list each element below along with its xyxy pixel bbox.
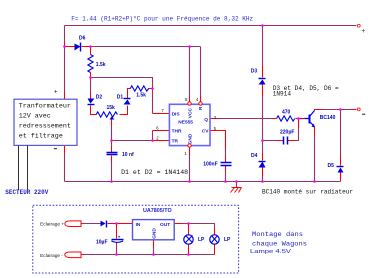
svg-text:VCC: VCC (187, 108, 193, 119)
svg-text:GND: GND (152, 228, 158, 239)
pin 8 circle (188, 102, 191, 105)
wire D4 to rail (262, 168, 264, 182)
svg-text:Eclairage +: Eclairage + (40, 222, 64, 228)
wire transformer plus vertical (64, 26, 66, 100)
svg-text:SECTEUR 220V: SECTEUR 220V (5, 189, 48, 196)
resistor R1 1.5k (88, 55, 106, 73)
diode D6 (75, 36, 86, 52)
wire cap 10nF to ground rail (111, 156, 113, 182)
wire emitter lead (314, 127, 316, 135)
wire 220pF to D3 line (263, 140, 284, 142)
svg-text:Lampe 4.5V: Lampe 4.5V (250, 249, 292, 255)
wire transformer minus lead (64, 146, 66, 153)
wire lamp1 bottom (188, 244, 190, 255)
svg-text:F= 1.44 (R1+R2+P)*C pour une F: F= 1.44 (R1+R2+P)*C pour une Fréquence d… (71, 16, 253, 23)
wire 100nF leads (225, 157, 227, 163)
wire wiper lead (111, 120, 113, 127)
wire D4 leads (262, 153, 264, 161)
svg-text:100nF: 100nF (203, 162, 217, 168)
wire R2 left to D1 (128, 89, 131, 99)
capacitor 10uF polarized (96, 235, 124, 246)
diode D3 (251, 68, 266, 84)
wire 10uF to bottom (116, 243, 118, 255)
wire 10nF leads (111, 147, 113, 153)
wire D2 branch (90, 78, 92, 99)
svg-text:Eclairage -: Eclairage - (40, 253, 63, 259)
svg-text:D5: D5 (328, 163, 335, 169)
wire lamp2 top lead (214, 229, 216, 235)
svg-text:Q: Q (204, 117, 208, 123)
wire Q lead (211, 118, 219, 120)
svg-text:DIS: DIS (172, 111, 181, 117)
wire VCC feed horizontal (91, 46, 201, 48)
wire reg GND down (153, 240, 155, 255)
wire D2 leads (90, 94, 92, 99)
svg-text:220pF: 220pF (280, 129, 294, 135)
wire top supply rail (65, 25, 357, 27)
svg-text:+: + (118, 235, 121, 240)
red lead overlays main circuit (65, 43, 357, 181)
wire DIS pin (153, 113, 170, 115)
wire D6 leads (65, 46, 75, 48)
svg-text:+: + (54, 89, 58, 95)
svg-text:redresssement: redresssement (19, 123, 71, 131)
svg-text:R: R (198, 106, 204, 110)
node eclairage plus tag (40, 221, 81, 228)
wire OUT row (175, 224, 215, 235)
svg-text:Montage dans: Montage dans (252, 231, 303, 239)
diode D5 (328, 163, 344, 173)
wire base node to 220pF (288, 119, 299, 141)
wire reg GND lead (153, 240, 155, 248)
capacitor 100nF (203, 162, 231, 168)
wire D2 to pot (91, 106, 97, 115)
wire OUT lead (175, 223, 183, 225)
wire chip GND down (189, 148, 191, 182)
svg-text:Tranformateur: Tranformateur (19, 103, 71, 111)
wire 470 to base (296, 118, 309, 120)
wire collector rail (315, 110, 357, 111)
svg-text:+: + (361, 28, 365, 35)
wire R lead (200, 97, 202, 103)
pin 4 circle (199, 102, 202, 105)
svg-text:D1: D1 (117, 95, 124, 101)
wire transformer plus lead (64, 93, 66, 100)
svg-text:1.5k: 1.5k (136, 92, 146, 98)
wire CV lead (211, 131, 226, 151)
wire TR row (112, 140, 153, 142)
wire collector lead (315, 109, 323, 111)
diode D1 (117, 95, 131, 105)
svg-text:LP: LP (198, 237, 205, 243)
wire node B horizontal (91, 78, 153, 114)
wire chip GND lead (189, 148, 191, 156)
regulator U2 UA7805 box (133, 220, 175, 240)
node output minus terminal (357, 108, 360, 111)
diode D2 (88, 95, 103, 105)
svg-text:BC140 monté sur radiateur: BC140 monté sur radiateur (262, 189, 353, 196)
svg-text:D6: D6 (79, 36, 86, 42)
wire THR branch (152, 131, 154, 141)
wire CV to 100nF (211, 131, 226, 163)
svg-text:IN: IN (136, 222, 141, 228)
svg-text:GND: GND (187, 133, 193, 144)
wire VCC pin vertical (189, 47, 191, 103)
wire D5 branch down (340, 110, 342, 166)
wire D5 to rail corner (340, 173, 342, 182)
capacitor 220pF (280, 129, 294, 144)
wire D5 leads (340, 158, 342, 166)
svg-text:NE555: NE555 (178, 119, 193, 125)
transformer block (14, 89, 77, 148)
pin 1 circle (188, 144, 191, 147)
transistor Q1 BC140 (305, 111, 336, 128)
node output plus terminal (357, 24, 360, 27)
wire node to IN (117, 223, 133, 225)
svg-text:CV: CV (202, 129, 209, 135)
wire ground symbol stub (236, 182, 238, 188)
wire Q output row (211, 118, 277, 120)
svg-text:D2: D2 (96, 95, 103, 101)
wire lamp2 bottom (214, 244, 216, 255)
wire wiper down (111, 120, 113, 153)
svg-text:et filtrage: et filtrage (19, 133, 63, 141)
svg-text:1N914: 1N914 (273, 91, 292, 98)
capacitor 10nF (107, 152, 135, 158)
ground (231, 188, 242, 193)
wire 470 leads (273, 118, 277, 120)
svg-text:10 nf: 10 nf (122, 152, 134, 158)
wire VCC lead (189, 97, 191, 103)
svg-text:D3: D3 (251, 68, 258, 74)
resistor R2 1.5k horizontal (130, 86, 148, 99)
wire D1 to pot (120, 106, 128, 115)
potentiometer 15k (96, 105, 117, 120)
wire eclairage minus row (82, 254, 215, 256)
lamp LP2 (210, 235, 231, 244)
node dots (63, 24, 342, 183)
svg-text:THR: THR (172, 129, 182, 135)
wire secteur mains leads (18, 146, 20, 190)
wire lamp1 top (188, 224, 190, 235)
wire D3 to 220pF node (262, 85, 264, 161)
wire 220pF leads (288, 140, 295, 142)
svg-text:LP: LP (224, 237, 231, 243)
svg-text:chaque Wagons: chaque Wagons (252, 241, 307, 249)
wire base node vertical lead (298, 119, 300, 128)
wire 100nF to rail (225, 166, 227, 182)
svg-text:12V avec: 12V avec (19, 113, 51, 121)
svg-text:D1 et D2 = 1N4148: D1 et D2 = 1N4148 (121, 169, 188, 176)
bottom section node dots (115, 222, 190, 256)
wire diode to node (108, 223, 117, 225)
wire transformer minus vertical (64, 146, 66, 182)
wire R2 lead right (149, 88, 153, 90)
wire D3 leads (262, 66, 264, 78)
svg-text:10µF: 10µF (96, 239, 108, 245)
lamp LP1 (184, 235, 205, 244)
wire THR pin (153, 130, 170, 132)
wire eclairage plus row (82, 223, 101, 225)
svg-text:15k: 15k (107, 105, 116, 111)
wire bottom ground rail (65, 181, 341, 183)
wire D3 string top (262, 26, 264, 78)
diode D4 (251, 153, 266, 167)
resistor 470 (277, 110, 295, 122)
diode eclairage (101, 221, 107, 228)
svg-text:OUT: OUT (160, 222, 170, 228)
dashed wagon box (33, 205, 239, 273)
svg-text:TR: TR (172, 138, 179, 144)
svg-text:470: 470 (282, 110, 291, 116)
svg-text:BC140: BC140 (320, 115, 336, 121)
svg-text:UA7805/TO: UA7805/TO (143, 208, 172, 214)
wire base lead (299, 118, 305, 120)
svg-text:D4: D4 (251, 153, 258, 159)
svg-text:1.5k: 1.5k (96, 62, 106, 68)
wire R pin vertical (200, 47, 202, 103)
wire R1 leads (90, 47, 92, 55)
wire emitter down (314, 127, 316, 182)
wire TR pin (153, 140, 170, 142)
op-amp U1 NE555 timer box (156, 97, 216, 156)
wire 10uF branch (116, 224, 118, 239)
node eclairage minus tag (40, 252, 81, 259)
